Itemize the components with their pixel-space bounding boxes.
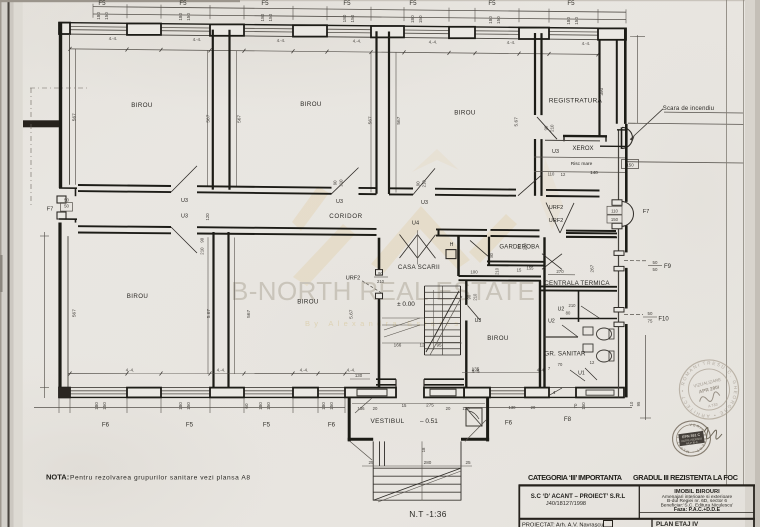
- door F10 jambs: [614, 308, 624, 313]
- svg-text:567: 567: [396, 116, 402, 124]
- sink rect 2: [583, 344, 593, 352]
- door F7 east jambs: [612, 200, 622, 206]
- svg-text:155: 155: [527, 266, 535, 271]
- left scan edge: [0, 0, 2, 527]
- registratura bottom wall / xerox counter: [563, 135, 607, 138]
- extension lines roomA|roomB: [207, 237, 209, 373]
- svg-text:12: 12: [561, 172, 566, 177]
- dims 110 150 F7 east boxed: [607, 206, 622, 214]
- svg-text:280: 280: [424, 460, 432, 465]
- svg-text:90: 90: [517, 244, 522, 249]
- svg-text:150: 150: [102, 402, 107, 410]
- svg-text:NOTA:: NOTA:: [46, 473, 69, 482]
- hatch marks lower stair hall: [384, 318, 420, 330]
- svg-text:130: 130: [509, 405, 517, 410]
- svg-text:390: 390: [599, 87, 604, 95]
- svg-text:567: 567: [368, 116, 374, 124]
- bottom dimension ticks: [58, 398, 60, 413]
- svg-text:567: 567: [72, 309, 78, 317]
- svg-text:– 0.51: – 0.51: [420, 418, 438, 425]
- door U3 birou3 swing: [413, 168, 435, 194]
- door U3 corridor bottom left + swing: [171, 227, 197, 253]
- svg-text:Risc mare: Risc mare: [571, 161, 593, 167]
- svg-text:CATEGORIA ‘III’ IMPORTANTA: CATEGORIA ‘III’ IMPORTANTA: [528, 473, 623, 482]
- svg-text:90: 90: [467, 294, 472, 299]
- door URF2 swing dash: [362, 281, 381, 293]
- svg-text:25: 25: [465, 460, 471, 465]
- vestibule door opening lines: [395, 379, 397, 397]
- arrow to fire escape: [630, 109, 663, 140]
- svg-text:130: 130: [355, 373, 363, 378]
- wall: left exterior upper: [59, 23, 62, 188]
- svg-text:F5: F5: [343, 0, 351, 7]
- svg-text:50: 50: [653, 267, 658, 272]
- balustrade rails: [379, 441, 381, 466]
- svg-text:50: 50: [653, 260, 658, 265]
- svg-text:90: 90: [378, 271, 383, 276]
- wall: corridor top, double line: [78, 185, 171, 186]
- toilet oval 2: [597, 350, 612, 362]
- wall: left exterior upper inner face: [69, 34, 71, 185]
- wall: roomA|roomB left face: [212, 232, 214, 396]
- stair break diagonal: [426, 291, 459, 352]
- svg-text:F5: F5: [488, 0, 496, 7]
- door swing U1: [570, 370, 585, 381]
- svg-text:567: 567: [246, 309, 252, 317]
- svg-text:50: 50: [648, 311, 653, 316]
- wall: birou1|birou2 right face: [228, 30, 230, 190]
- interior dimension line below top wall: [70, 49, 598, 55]
- svg-text:4.-4.: 4.-4.: [507, 40, 515, 45]
- svg-text:90: 90: [333, 180, 338, 185]
- svg-text:BIROU: BIROU: [131, 102, 153, 109]
- svg-text:567: 567: [206, 114, 212, 122]
- svg-text:F5: F5: [179, 0, 187, 7]
- svg-text:150: 150: [186, 13, 191, 21]
- stair arrow: [433, 290, 435, 350]
- svg-text:180: 180: [96, 12, 101, 20]
- ghost mark left margin: [0, 255, 3, 292]
- top scan edge: [0, 0, 240, 2]
- svg-text:F5: F5: [98, 0, 106, 7]
- svg-text:150: 150: [104, 12, 109, 20]
- svg-text:90: 90: [544, 125, 549, 130]
- wall stub corridor right of U4: [438, 229, 440, 236]
- door U3 middle birou swing: [468, 305, 481, 320]
- svg-text:± 0.00: ± 0.00: [397, 301, 415, 308]
- svg-text:F5: F5: [186, 422, 194, 429]
- svg-text:150: 150: [350, 14, 355, 22]
- dash line horizontal left: [30, 87, 88, 89]
- svg-text:F6: F6: [505, 420, 513, 427]
- wall: east exterior outer face: [625, 124, 628, 202]
- svg-text:4.-4.: 4.-4.: [193, 37, 201, 42]
- svg-text:150: 150: [611, 217, 619, 222]
- svg-text:150: 150: [329, 402, 334, 410]
- svg-text:18: 18: [421, 447, 426, 452]
- stamp round small: [670, 419, 713, 459]
- svg-text:4.-4.: 4.-4.: [582, 41, 590, 46]
- svg-text:5.67: 5.67: [514, 117, 520, 127]
- svg-text:F5: F5: [567, 0, 575, 7]
- svg-text:F5: F5: [263, 422, 271, 429]
- svg-text:F6: F6: [102, 422, 110, 429]
- wall: east inner face: [618, 130, 620, 202]
- wall: roomA|roomB right face: [227, 232, 229, 396]
- svg-text:U3: U3: [181, 198, 188, 204]
- wall: left exterior lower: [58, 223, 61, 398]
- wall segment between stair hall and vestibule: [345, 388, 396, 398]
- bottom dimension row line: [34, 407, 345, 409]
- niche H radiator: [446, 250, 456, 259]
- svg-text:75: 75: [648, 318, 653, 323]
- svg-text:150: 150: [581, 402, 586, 410]
- door U3 birou2 swing: [332, 168, 359, 194]
- svg-text:10: 10: [629, 401, 634, 406]
- svg-text:50: 50: [64, 203, 69, 208]
- door URF2 double swing V: [546, 203, 560, 233]
- svg-text:150: 150: [574, 17, 579, 25]
- svg-text:80: 80: [566, 311, 571, 316]
- wall: centrala top: [566, 232, 617, 234]
- svg-text:210: 210: [550, 124, 555, 132]
- svg-text:F7: F7: [47, 206, 54, 212]
- stamp signature squiggle: [704, 427, 722, 439]
- svg-text:URF2: URF2: [549, 205, 564, 211]
- svg-text:F10: F10: [658, 316, 669, 322]
- dim line under stairs: [382, 342, 462, 344]
- svg-text:90: 90: [416, 181, 421, 186]
- svg-text:BIROU: BIROU: [300, 101, 322, 108]
- svg-text:20: 20: [446, 406, 451, 411]
- svg-text:180: 180: [178, 402, 183, 410]
- svg-text:N.T -1:36: N.T -1:36: [409, 509, 446, 519]
- svg-text:VESTIBUL: VESTIBUL: [370, 418, 404, 425]
- east dim line vertical: [645, 335, 647, 420]
- black wall stub adjoining building: [23, 120, 59, 127]
- svg-text:URF2: URF2: [346, 276, 361, 282]
- svg-text:BIROU: BIROU: [454, 109, 476, 116]
- stairs flight: [424, 286, 426, 355]
- svg-text:REGISTRATURA: REGISTRATURA: [549, 98, 603, 105]
- wall: corridor bottom, double line: [78, 225, 171, 228]
- svg-text:90: 90: [200, 237, 205, 242]
- svg-text:180: 180: [260, 13, 265, 21]
- extension lines wall1: [207, 50, 209, 186]
- interior vertical dim line room1: [75, 49, 77, 185]
- svg-text:4.-4.: 4.-4.: [217, 368, 225, 373]
- top dimension ticks: [92, 4, 94, 18]
- svg-text:210: 210: [473, 293, 478, 301]
- svg-text:Pentru rezolvarea grupurilor s: Pentru rezolvarea grupurilor sanitare ve…: [70, 475, 250, 482]
- svg-text:140: 140: [590, 170, 598, 175]
- svg-text:80: 80: [489, 252, 494, 257]
- svg-text:5.67: 5.67: [349, 309, 355, 319]
- partition walls sanitar: [578, 291, 580, 322]
- top dimension line 1: [93, 7, 626, 13]
- svg-text:110: 110: [611, 208, 618, 213]
- svg-text:230: 230: [523, 243, 528, 251]
- svg-text:100: 100: [470, 270, 478, 275]
- svg-text:180: 180: [94, 402, 99, 410]
- wall: middle birou top: [459, 275, 542, 278]
- wall: birou2|birou3 left face: [375, 31, 377, 194]
- wall: vestibule inner band: [376, 378, 396, 380]
- window glazing bottom wall: [70, 390, 127, 392]
- fire escape door arc: [622, 127, 632, 148]
- door U3 registratura diagonal: [537, 117, 557, 139]
- svg-text:F5: F5: [261, 0, 269, 7]
- svg-text:270: 270: [556, 269, 564, 274]
- door diagonal into centrala hall X: [542, 254, 562, 270]
- axis dash line left: [30, 88, 32, 207]
- wall piers top wall: [59, 23, 70, 34]
- wall: centrala bottom: [541, 285, 617, 287]
- extension lines wall2: [370, 52, 372, 192]
- door F7 left jamb details: [59, 187, 77, 189]
- svg-text:150: 150: [418, 15, 423, 23]
- right margin band: [745, 0, 760, 527]
- svg-text:120: 120: [205, 213, 210, 221]
- svg-text:180: 180: [566, 17, 571, 25]
- svg-text:180: 180: [410, 15, 415, 23]
- svg-text:4.-4.: 4.-4.: [347, 368, 355, 373]
- door swing risc room: [518, 175, 542, 196]
- svg-text:BIROU: BIROU: [297, 299, 319, 306]
- wall: garderoba bottom: [487, 260, 544, 262]
- svg-text:50: 50: [64, 198, 69, 203]
- svg-text:Faza: P.A.C.+D.D.E: Faza: P.A.C.+D.D.E: [674, 507, 721, 513]
- svg-text:210: 210: [569, 303, 577, 308]
- door URF2 jambs: [376, 270, 383, 276]
- svg-text:20: 20: [373, 406, 378, 411]
- svg-text:4.-4.: 4.-4.: [472, 369, 480, 374]
- wall: birou1|birou2 left face: [212, 30, 214, 190]
- svg-text:J40/18127/1998: J40/18127/1998: [546, 501, 586, 507]
- svg-text:180: 180: [321, 402, 326, 410]
- svg-text:130: 130: [462, 406, 470, 411]
- door diagonal garderoba left: [470, 240, 488, 256]
- dim line left of bottom room: [44, 232, 46, 398]
- watermark logo gold roofs: [292, 149, 563, 286]
- svg-text:110: 110: [548, 172, 555, 177]
- svg-text:F9: F9: [664, 264, 672, 270]
- svg-text:XEROX: XEROX: [572, 146, 593, 152]
- svg-text:567: 567: [72, 113, 78, 121]
- svg-text:210: 210: [495, 267, 500, 275]
- ticks on bottom interior dim line: [69, 372, 72, 376]
- svg-text:180: 180: [342, 14, 347, 22]
- wall: birou2|birou3 right face: [388, 32, 390, 195]
- top dimension line 2: [93, 14, 626, 20]
- svg-text:210: 210: [200, 247, 205, 255]
- svg-text:U1: U1: [578, 371, 585, 377]
- interior dim line bottom rooms: [68, 373, 370, 375]
- wall: bottom exterior outer face: [59, 396, 345, 398]
- svg-text:F7: F7: [643, 209, 650, 215]
- wall: left exterior lower inner face: [67, 236, 69, 387]
- svg-text:BIROU: BIROU: [487, 335, 509, 342]
- svg-text:CORIDOR: CORIDOR: [329, 213, 362, 220]
- wall: top exterior window sill line: [59, 34, 626, 40]
- svg-text:15: 15: [517, 268, 522, 273]
- svg-text:U2: U2: [558, 307, 565, 313]
- svg-text:4.-4.: 4.-4.: [300, 368, 308, 373]
- svg-text:4.-4.: 4.-4.: [126, 368, 134, 373]
- door U3 corridor top left + swing: [171, 166, 197, 192]
- svg-text:25: 25: [368, 460, 374, 465]
- underline scara: [664, 111, 743, 114]
- svg-text:4.-4.: 4.-4.: [277, 38, 285, 43]
- door U4 double swing X: [400, 235, 418, 259]
- svg-text:BIROU: BIROU: [127, 293, 149, 300]
- long horizontal line right top: [628, 123, 744, 124]
- vestibule hatch: [350, 441, 372, 460]
- svg-text:U3: U3: [181, 214, 188, 220]
- svg-text:210: 210: [339, 179, 344, 187]
- svg-text:PLAN ETAJ IV: PLAN ETAJ IV: [656, 521, 699, 527]
- wall: vestibule bottom left: [348, 438, 374, 441]
- svg-text:70: 70: [558, 362, 563, 367]
- svg-text:PROIECTAT: Arh. A.V. Navraşcu: PROIECTAT: Arh. A.V. Navraşcu: [522, 522, 603, 527]
- svg-text:U2: U2: [548, 319, 555, 325]
- entrance steps: [372, 441, 374, 500]
- svg-text:Scara de incendiu: Scara de incendiu: [663, 106, 714, 112]
- svg-text:95: 95: [636, 401, 641, 406]
- ticks on interior dim line: [69, 47, 72, 51]
- wall: birou3|registratura upper: [534, 33, 536, 115]
- svg-text:180: 180: [488, 16, 493, 24]
- svg-text:12: 12: [590, 360, 595, 365]
- risc mare band lines: [534, 156, 625, 159]
- svg-text:150: 150: [268, 13, 273, 21]
- wall: right shaft inner: [616, 40, 618, 124]
- svg-text:CASA SCARII: CASA SCARII: [398, 264, 440, 271]
- wall: top exterior outer face: [59, 23, 626, 29]
- wall: vestibule left: [348, 397, 351, 441]
- svg-text:180: 180: [178, 13, 183, 21]
- svg-text:H: H: [450, 242, 454, 248]
- wall: bottom sill line: [59, 387, 345, 389]
- sheet border line 1: [726, 0, 728, 485]
- wall: birou3|registratura below door: [534, 139, 536, 196]
- toilet oval 1: [597, 328, 612, 340]
- wall: stair hall right: [457, 236, 460, 276]
- wall: middle birou left: [465, 280, 467, 305]
- wall: garderoba left: [488, 237, 490, 265]
- svg-text:4.-4.: 4.-4.: [353, 39, 361, 44]
- svg-text:U3: U3: [552, 149, 559, 155]
- door swings sanitar: [581, 306, 600, 319]
- svg-text:GR. SANITAR: GR. SANITAR: [544, 351, 586, 358]
- svg-text:U3: U3: [475, 318, 482, 324]
- dim line right of registratura: [637, 35, 639, 123]
- svg-text:GRADUL III REZISTENTA LA FOC: GRADUL III REZISTENTA LA FOC: [633, 473, 739, 482]
- svg-text:S.C ‘D’ ACANT – PROIECT’ S.R.L: S.C ‘D’ ACANT – PROIECT’ S.R.L: [531, 493, 626, 500]
- dim lines stair hall left: [382, 317, 424, 319]
- svg-text:F6: F6: [328, 422, 336, 429]
- svg-text:60: 60: [244, 403, 249, 409]
- svg-text:210: 210: [422, 180, 427, 188]
- svg-text:20: 20: [531, 405, 536, 410]
- svg-text:180: 180: [258, 402, 263, 410]
- door F7 east arc: [621, 201, 634, 226]
- sheet border line 2: [743, 0, 745, 485]
- dims 50 50 F7 left: [61, 203, 73, 212]
- svg-text:70: 70: [573, 403, 578, 408]
- svg-text:567: 567: [237, 115, 243, 123]
- wall: vestibule right: [486, 397, 489, 441]
- door F9 jambs: [614, 251, 624, 256]
- window glazing lines top wall: [70, 26, 127, 29]
- east landing lines: [600, 145, 626, 147]
- wall: vestibule bottom right: [461, 438, 489, 441]
- box 150 right: [622, 160, 639, 169]
- svg-text:F5: F5: [409, 0, 417, 7]
- svg-text:U3: U3: [336, 199, 343, 205]
- window F8 large rect: [576, 388, 624, 398]
- svg-text:4.-4.: 4.-4.: [429, 39, 437, 44]
- svg-text:5.67: 5.67: [206, 309, 212, 319]
- svg-text:150: 150: [186, 402, 191, 410]
- steps diagonal: [374, 469, 460, 501]
- sink rect 1: [583, 327, 593, 335]
- corner pier solid bottom left: [59, 387, 71, 398]
- window boxes vestibule wall: [357, 389, 387, 396]
- steps center vertical: [421, 441, 423, 500]
- svg-text:U3: U3: [421, 200, 428, 206]
- wall: registratura right face: [598, 40, 600, 137]
- wall: right exterior top corner: [624, 29, 627, 124]
- wall: middle birou right: [539, 281, 541, 388]
- svg-text:267: 267: [590, 264, 595, 272]
- svg-text:150: 150: [496, 16, 501, 24]
- svg-text:F8: F8: [564, 416, 572, 423]
- svg-text:150: 150: [266, 402, 271, 410]
- long horizontal line right 2: [625, 162, 744, 163]
- wall: stair hall left: [378, 238, 381, 275]
- title block frame: [519, 485, 756, 527]
- wc fixture vestibule: [466, 408, 482, 426]
- wall piers bottom wall: [59, 388, 70, 398]
- svg-text:4.-4.: 4.-4.: [109, 36, 117, 41]
- svg-text:210: 210: [377, 279, 385, 284]
- svg-text:U4: U4: [412, 221, 419, 227]
